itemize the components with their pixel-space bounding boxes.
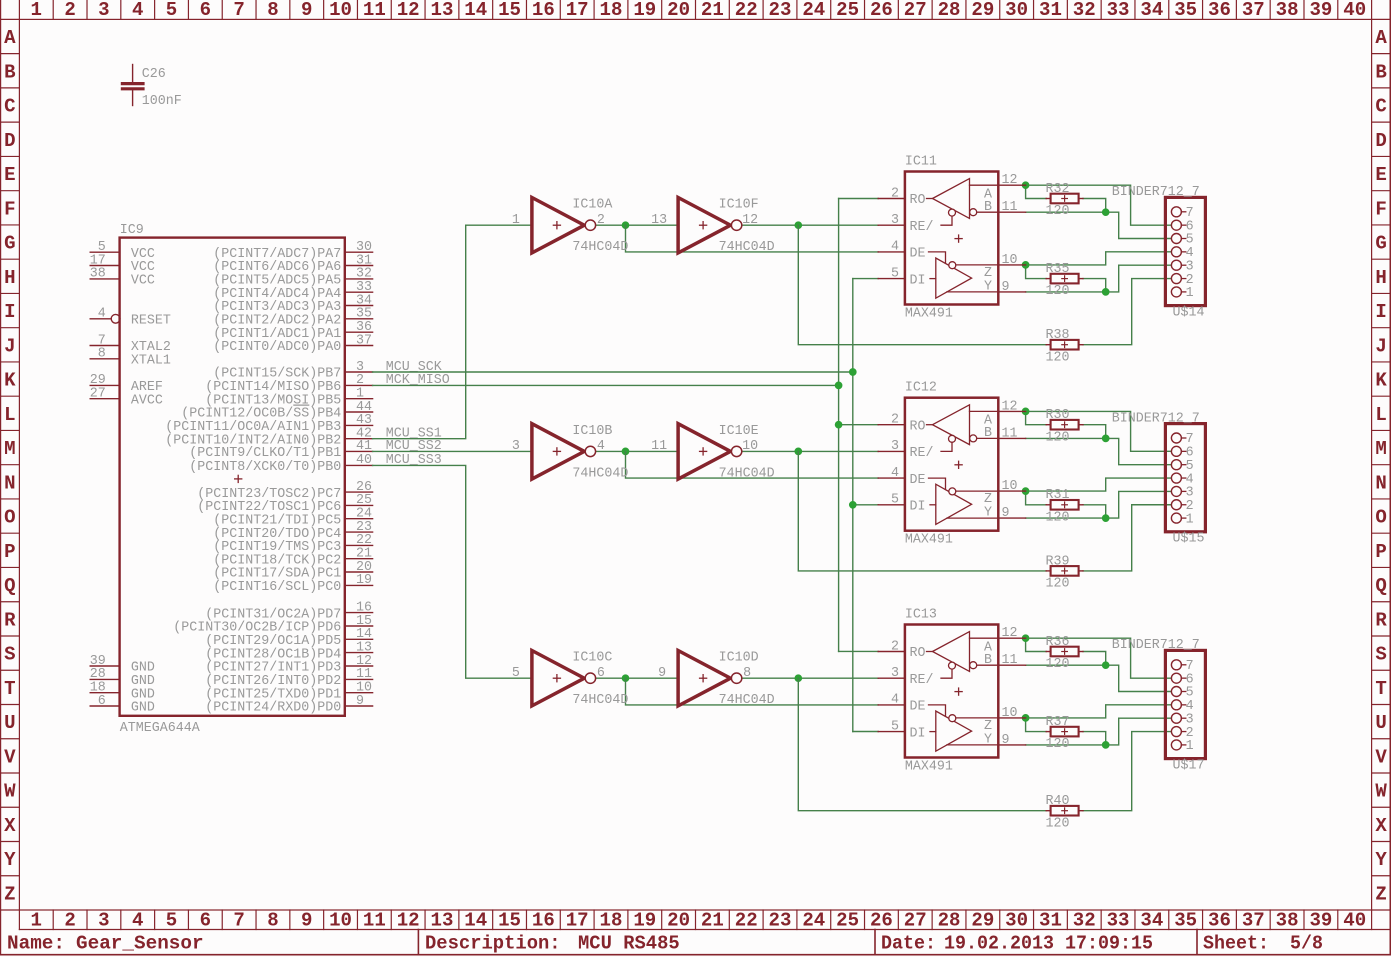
wire IC10A output to IC10F input (596, 224, 679, 226)
svg-text:120: 120 (1046, 576, 1070, 592)
IC13 left pin stubs 2,3,4,5 (878, 652, 905, 732)
svg-text:P: P (1375, 541, 1386, 563)
label IC11 (905, 154, 937, 170)
value MAX491 IC12 (905, 532, 953, 548)
svg-text:C: C (1375, 96, 1386, 118)
svg-text:74HC04D: 74HC04D (572, 465, 628, 481)
svg-text:DE: DE (910, 472, 926, 488)
symbol anchor cross IC13 (954, 687, 962, 695)
svg-text:10: 10 (329, 910, 352, 932)
svg-text:38: 38 (1276, 910, 1299, 932)
svg-text:R36: R36 (1046, 634, 1070, 650)
svg-text:35: 35 (1174, 910, 1197, 932)
svg-text:11: 11 (651, 438, 667, 454)
svg-text:36: 36 (1208, 910, 1231, 932)
pin number 2 (IC10A output) (597, 212, 605, 228)
wire net MCU_SCK (373, 279, 879, 732)
label U$15 (1173, 531, 1205, 547)
svg-text:4: 4 (98, 306, 106, 322)
svg-text:11: 11 (363, 0, 386, 21)
IC11 right pin stubs 12,11,10,9 (998, 185, 1025, 292)
svg-text:S: S (4, 644, 15, 666)
svg-text:74HC04D: 74HC04D (719, 465, 775, 481)
svg-text:100nF: 100nF (142, 93, 182, 109)
svg-text:2: 2 (64, 910, 75, 932)
junction MCK_MISO feed (835, 382, 842, 389)
symbol anchor cross IC12 (954, 461, 962, 469)
junction IC10C output (622, 675, 629, 682)
wire net A IC11 (1026, 185, 1172, 225)
junction IC10A output (622, 222, 629, 229)
svg-text:31: 31 (1039, 0, 1062, 21)
value 74HC04D IC10C (572, 692, 628, 708)
svg-text:6: 6 (200, 910, 211, 932)
IC11 pin names RO RE/ DE DI (910, 192, 934, 288)
pin number 12 (IC10F output) (742, 212, 758, 228)
svg-text:4: 4 (597, 438, 605, 454)
wire net A IC13 (1026, 638, 1172, 678)
svg-text:27: 27 (90, 386, 106, 402)
svg-text:32: 32 (1073, 0, 1096, 21)
svg-text:19.02.2013 17:09:15: 19.02.2013 17:09:15 (944, 933, 1153, 955)
svg-text:IC10D: IC10D (719, 650, 759, 666)
wire net MCU_SS2 (373, 450, 532, 452)
label IC12 (905, 380, 937, 396)
svg-text:120: 120 (1046, 349, 1070, 365)
svg-text:C26: C26 (142, 66, 166, 82)
pin number 3 (IC10B input) (512, 438, 520, 454)
resistor R37 (1046, 727, 1083, 737)
wire IC10F output to IC11 RE/ (742, 224, 879, 226)
label R32 (1046, 181, 1070, 197)
svg-text:11: 11 (1002, 199, 1018, 215)
value MAX491 IC13 (905, 759, 953, 775)
svg-text:4: 4 (891, 465, 899, 481)
svg-text:15: 15 (498, 910, 521, 932)
svg-text:5: 5 (166, 910, 177, 932)
wire net MCU_SS1 (373, 225, 532, 439)
svg-text:19: 19 (356, 572, 372, 588)
IC12 right pin stubs 12,11,10,9 (998, 411, 1025, 518)
svg-text:33: 33 (1107, 0, 1130, 21)
svg-text:R: R (4, 609, 16, 631)
svg-text:9: 9 (301, 910, 312, 932)
resistor R40 (1046, 806, 1083, 816)
junction Y net IC11 (1102, 289, 1109, 296)
junction A net IC11 (1022, 182, 1029, 189)
IC13 right pin numbers (1002, 625, 1018, 748)
pin number 10 (IC10E output) (742, 438, 758, 454)
svg-text:26: 26 (870, 0, 893, 21)
svg-text:R40: R40 (1046, 793, 1070, 809)
svg-text:39: 39 (1309, 0, 1332, 21)
svg-text:L: L (1375, 404, 1386, 426)
svg-text:RO: RO (910, 645, 926, 661)
IC13 right pin stubs 12,11,10,9 (998, 638, 1025, 745)
junction B net IC11 (1102, 209, 1109, 216)
svg-text:8: 8 (743, 665, 751, 681)
IC12 pin names RO RE/ DE DI (910, 418, 934, 514)
wire net Y IC11 (1026, 265, 1172, 292)
svg-text:7: 7 (233, 910, 244, 932)
svg-text:BINDER712_7: BINDER712_7 (1112, 637, 1200, 653)
svg-text:18: 18 (600, 910, 623, 932)
svg-text:74HC04D: 74HC04D (719, 692, 775, 708)
wire net A IC12 (1026, 411, 1172, 451)
wire IC10D output to R40 (798, 678, 1046, 811)
svg-text:22: 22 (735, 0, 758, 21)
wire IC10B output to IC10E input (596, 450, 679, 452)
svg-text:IC12: IC12 (905, 380, 937, 396)
svg-text:J: J (1375, 335, 1386, 357)
svg-text:ATMEGA644A: ATMEGA644A (120, 720, 201, 736)
IC9 left pin stubs (90, 252, 120, 706)
svg-text:14: 14 (464, 0, 487, 21)
svg-text:6: 6 (98, 693, 106, 709)
svg-text:9: 9 (1002, 505, 1010, 521)
label R35 (1046, 261, 1070, 277)
pin number 8 (IC10D output) (743, 665, 751, 681)
svg-text:X: X (1375, 815, 1387, 837)
svg-text:3: 3 (512, 438, 520, 454)
svg-text:2: 2 (64, 0, 75, 21)
wire IC10A output to IC11 DE (626, 225, 879, 252)
svg-text:DI: DI (910, 725, 926, 741)
svg-text:74HC04D: 74HC04D (572, 692, 628, 708)
svg-text:21: 21 (701, 910, 724, 932)
svg-text:3: 3 (98, 910, 109, 932)
svg-text:120: 120 (1046, 429, 1070, 445)
svg-text:M: M (1375, 438, 1386, 460)
svg-text:6: 6 (200, 0, 211, 21)
inverter IC10F 74HC04 (678, 198, 742, 253)
net label MCU_SS2 (386, 438, 442, 454)
IC11 left pin numbers (891, 185, 899, 281)
svg-text:3: 3 (891, 665, 899, 681)
label U$14 (1173, 304, 1205, 320)
svg-text:K: K (1375, 370, 1387, 392)
svg-text:R30: R30 (1046, 407, 1070, 423)
label BINDER712_7 (U$17) (1112, 637, 1200, 653)
symbol anchor cross IC11 (954, 234, 962, 242)
svg-text:3: 3 (891, 438, 899, 454)
svg-text:16: 16 (532, 910, 555, 932)
svg-text:RESET: RESET (131, 313, 171, 329)
svg-text:38: 38 (1276, 0, 1299, 21)
svg-text:23: 23 (769, 0, 792, 21)
title Description: MCU RS485 (425, 933, 680, 955)
svg-text:S: S (1375, 644, 1386, 666)
svg-text:V: V (1375, 746, 1387, 768)
wire IC10E output to IC12 RE/ (742, 450, 879, 452)
svg-text:120: 120 (1046, 815, 1070, 831)
svg-text:E: E (1375, 164, 1386, 186)
wire IC10F output to R38 (798, 225, 1046, 345)
svg-text:4: 4 (891, 692, 899, 708)
svg-text:9: 9 (1002, 279, 1010, 295)
svg-text:W: W (1375, 781, 1387, 803)
svg-text:12: 12 (397, 910, 420, 932)
IC12 receiver amp (927, 405, 999, 452)
svg-text:XTAL1: XTAL1 (131, 353, 171, 369)
wire net Z IC13 (1026, 705, 1172, 732)
svg-text:W: W (4, 781, 16, 803)
svg-text:Q: Q (4, 575, 15, 597)
svg-text:37: 37 (356, 332, 372, 348)
svg-text:11: 11 (363, 910, 386, 932)
svg-text:3: 3 (891, 212, 899, 228)
svg-text:23: 23 (769, 910, 792, 932)
svg-text:MAX491: MAX491 (905, 532, 953, 548)
resistor R31 (1046, 500, 1083, 510)
svg-text:20: 20 (667, 910, 690, 932)
svg-text:J: J (4, 335, 15, 357)
U$15 pin pads 7-1 (1171, 433, 1185, 523)
svg-text:11: 11 (1002, 652, 1018, 668)
IC13 pin names A B Z Y (984, 640, 993, 748)
value 74HC04D IC10F (719, 239, 775, 255)
svg-text:13: 13 (431, 0, 454, 21)
svg-text:O: O (1375, 507, 1386, 529)
svg-text:R38: R38 (1046, 327, 1070, 343)
svg-text:IC13: IC13 (905, 607, 937, 623)
svg-text:7: 7 (233, 0, 244, 21)
svg-text:27: 27 (904, 0, 927, 21)
svg-text:1: 1 (512, 212, 520, 228)
svg-text:6: 6 (597, 665, 605, 681)
net label MCU_SCK (386, 359, 443, 375)
svg-text:AVCC: AVCC (131, 392, 163, 408)
svg-text:I: I (4, 301, 15, 323)
label IC10D (719, 650, 759, 666)
label BINDER712_7 (U$14) (1112, 184, 1200, 200)
junction Z net IC11 (1022, 262, 1029, 269)
resistor R36 (1046, 647, 1083, 657)
resistor R39 (1046, 566, 1083, 576)
rs485 transceiver IC13 body (905, 625, 998, 758)
svg-text:1: 1 (1186, 285, 1194, 301)
svg-text:MCU RS485: MCU RS485 (578, 933, 680, 955)
svg-text:20: 20 (667, 0, 690, 21)
pin number 13 (IC10F input) (651, 212, 667, 228)
pin number 6 (IC10C output) (597, 665, 605, 681)
wire net MCK_MISO (373, 199, 879, 652)
title Sheet: 5/8 (1203, 933, 1323, 955)
svg-text:13: 13 (431, 910, 454, 932)
IC11 pin names A B Z Y (984, 187, 993, 295)
svg-text:R35: R35 (1046, 261, 1070, 277)
svg-text:Description:: Description: (425, 933, 561, 955)
svg-text:K: K (4, 370, 16, 392)
svg-text:1: 1 (1186, 511, 1194, 527)
value 120 (R39) (1046, 576, 1070, 592)
svg-text:29: 29 (971, 910, 994, 932)
junction A net IC12 (1022, 408, 1029, 415)
label R30 (1046, 407, 1070, 423)
junction B net IC12 (1102, 435, 1109, 442)
svg-text:5: 5 (891, 718, 899, 734)
svg-text:VCC: VCC (131, 273, 155, 289)
junction Z net IC13 (1022, 715, 1029, 722)
svg-text:120: 120 (1046, 509, 1070, 525)
svg-text:RE/: RE/ (910, 219, 934, 235)
svg-text:M: M (4, 438, 15, 460)
wire net MCU_SS3 (373, 465, 532, 678)
svg-text:B: B (4, 61, 15, 83)
svg-text:(PCINT16/SCL)PC0: (PCINT16/SCL)PC0 (213, 579, 341, 595)
value 74HC04D IC10D (719, 692, 775, 708)
svg-text:25: 25 (836, 0, 859, 21)
svg-text:10: 10 (1002, 252, 1018, 268)
value 120 (R35) (1046, 283, 1070, 299)
svg-text:RE/: RE/ (910, 672, 934, 688)
junction Y net IC12 (1102, 515, 1109, 522)
svg-text:2: 2 (891, 412, 899, 428)
net label MCU_SS3 (386, 452, 442, 468)
svg-text:I: I (1375, 301, 1386, 323)
svg-text:RO: RO (910, 418, 926, 434)
svg-text:34: 34 (1140, 0, 1163, 21)
wire net B IC12 (1026, 425, 1172, 465)
svg-text:O: O (4, 507, 15, 529)
U$14 pin numbers 7-1 (1186, 205, 1194, 301)
svg-text:DE: DE (910, 699, 926, 715)
label IC10B (572, 423, 612, 439)
svg-text:DI: DI (910, 499, 926, 515)
svg-text:IC10A: IC10A (572, 197, 613, 213)
svg-text:3: 3 (98, 0, 109, 21)
svg-text:19: 19 (633, 0, 656, 21)
inverter IC10C 74HC04 (532, 651, 596, 706)
wire net Z IC11 (1026, 252, 1172, 279)
value 74HC04D IC10A (572, 239, 628, 255)
value 120 (R37) (1046, 736, 1070, 752)
wire net Y IC13 (1026, 718, 1172, 745)
svg-text:33: 33 (1107, 910, 1130, 932)
svg-text:16: 16 (532, 0, 555, 21)
svg-text:E: E (4, 164, 15, 186)
svg-text:26: 26 (870, 910, 893, 932)
svg-text:Z: Z (1375, 883, 1386, 905)
svg-text:28: 28 (938, 910, 961, 932)
label IC10F (719, 197, 759, 213)
svg-text:10: 10 (1002, 478, 1018, 494)
wire net Z IC12 (1026, 478, 1172, 505)
capacitor C26 (121, 65, 145, 106)
svg-text:5/8: 5/8 (1290, 933, 1323, 955)
svg-text:5: 5 (891, 265, 899, 281)
svg-text:9: 9 (658, 665, 666, 681)
wire IC10C output to IC10D input (596, 677, 679, 679)
svg-text:120: 120 (1046, 656, 1070, 672)
svg-text:37: 37 (1242, 0, 1265, 21)
svg-text:IC10B: IC10B (572, 423, 612, 439)
svg-text:F: F (1375, 198, 1386, 220)
svg-text:9: 9 (301, 0, 312, 21)
svg-text:19: 19 (633, 910, 656, 932)
svg-text:Q: Q (1375, 575, 1386, 597)
svg-text:Sheet:: Sheet: (1203, 933, 1269, 955)
svg-text:Gear_Sensor: Gear_Sensor (76, 933, 204, 955)
IC9 left pin numbers (90, 239, 106, 709)
svg-text:18: 18 (600, 0, 623, 21)
junction IC10D output (795, 675, 802, 682)
junction MCU_SCK feed (849, 369, 856, 376)
svg-text:37: 37 (1242, 910, 1265, 932)
junction B net IC13 (1102, 662, 1109, 669)
svg-text:8: 8 (98, 346, 106, 362)
svg-text:N: N (4, 472, 15, 494)
pin number 5 (IC10C input) (512, 665, 520, 681)
svg-text:L: L (4, 404, 15, 426)
svg-text:B: B (1375, 61, 1386, 83)
svg-text:R39: R39 (1046, 553, 1070, 569)
label IC9 (120, 222, 144, 238)
svg-text:U$14: U$14 (1173, 304, 1205, 320)
svg-text:DE: DE (910, 246, 926, 262)
IC11 left pin stubs 2,3,4,5 (878, 199, 905, 279)
pin number 9 (IC10D input) (658, 665, 666, 681)
svg-text:4: 4 (132, 0, 143, 21)
svg-text:35: 35 (1174, 0, 1197, 21)
junction IC10F output (795, 222, 802, 229)
svg-text:14: 14 (464, 910, 487, 932)
wire net B IC11 (1026, 199, 1172, 239)
wire IC10B output to IC12 DE (626, 451, 879, 478)
svg-text:15: 15 (498, 0, 521, 21)
svg-text:RO: RO (910, 192, 926, 208)
svg-text:12: 12 (1002, 172, 1018, 188)
wire IC10C output to IC13 DE (626, 678, 879, 705)
svg-text:13: 13 (651, 212, 667, 228)
label BINDER712_7 (U$15) (1112, 410, 1200, 426)
svg-text:24: 24 (802, 0, 825, 21)
svg-text:IC10E: IC10E (719, 423, 759, 439)
svg-text:74HC04D: 74HC04D (572, 239, 628, 255)
svg-text:5: 5 (166, 0, 177, 21)
svg-text:Y: Y (4, 849, 16, 871)
junction MCU_SCK IC12 branch (849, 501, 856, 508)
svg-text:G: G (4, 233, 15, 255)
svg-text:BINDER712_7: BINDER712_7 (1112, 410, 1200, 426)
wire R38 to U$14 pin 2 (1083, 279, 1171, 345)
value 120 (R40) (1046, 815, 1070, 831)
IC13 driver amp (929, 705, 999, 751)
svg-text:24: 24 (802, 910, 825, 932)
svg-text:U$15: U$15 (1173, 531, 1205, 547)
svg-text:R31: R31 (1046, 487, 1070, 503)
svg-text:22: 22 (735, 910, 758, 932)
svg-text:2: 2 (597, 212, 605, 228)
svg-text:X: X (4, 815, 16, 837)
svg-text:28: 28 (938, 0, 961, 21)
IC9 right pin names (165, 246, 341, 716)
pin number 11 (IC10E input) (651, 438, 667, 454)
label U$17 (1173, 757, 1205, 773)
label IC10C (572, 650, 612, 666)
IC12 left pin numbers (891, 412, 899, 508)
title Name: Gear_Sensor (7, 933, 204, 955)
value 120 (R38) (1046, 349, 1070, 365)
svg-text:32: 32 (1073, 910, 1096, 932)
svg-text:C: C (4, 96, 15, 118)
value 100nF (142, 93, 182, 109)
svg-text:10: 10 (329, 0, 352, 21)
svg-text:Name:: Name: (7, 933, 65, 955)
IC9 right pin stubs (345, 252, 373, 706)
resistor R32 (1046, 194, 1083, 204)
IC12 left pin stubs 2,3,4,5 (878, 425, 905, 505)
